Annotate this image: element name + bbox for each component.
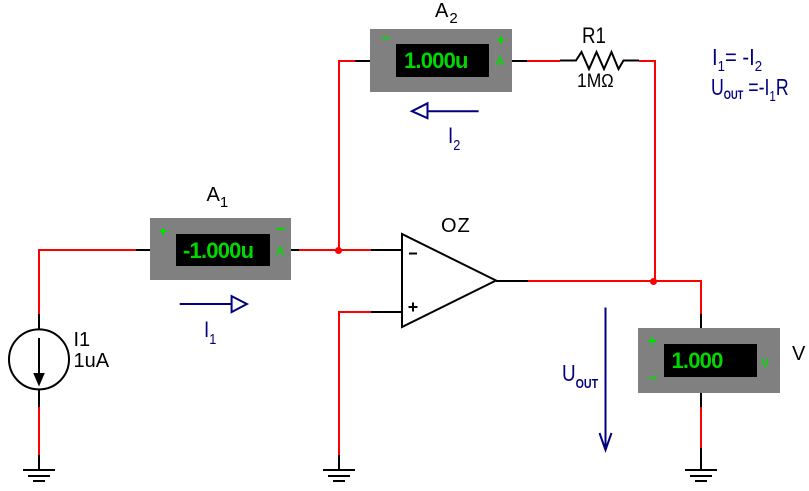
wire voltmeter top pin (700, 314, 702, 329)
label I1 arrow (204, 319, 216, 351)
wire (527, 60, 560, 62)
wire A1 right pin (291, 249, 299, 251)
label I2 arrow (448, 125, 460, 157)
wire ground lead (38, 455, 40, 469)
ammeter A1 (150, 218, 291, 280)
label 1M ohm (577, 72, 614, 91)
wire A2 right pin (511, 60, 527, 62)
label OZ (441, 216, 471, 236)
wire (700, 407, 702, 448)
wire voltmeter bottom pin (700, 393, 702, 407)
wire A2 left pin (355, 60, 371, 62)
formula I1 = -I2 (712, 46, 762, 78)
ground under voltmeter (685, 469, 717, 483)
wire (338, 311, 340, 456)
wire (654, 60, 656, 282)
wire op-amp non-inverting input pin (371, 311, 403, 313)
label 1uA (74, 351, 110, 371)
ground under op-amp + input (323, 469, 355, 483)
node junction A1/A2 (335, 247, 342, 254)
wire (700, 280, 702, 314)
ammeter A2 (370, 29, 512, 92)
label A2 (435, 1, 458, 29)
label R1 (582, 25, 606, 47)
voltage arrow Uout (595, 305, 617, 453)
wire (338, 60, 340, 251)
current arrow I2 (410, 101, 482, 121)
wire (338, 311, 371, 313)
voltmeter V (638, 328, 780, 393)
label A1 (207, 185, 229, 213)
label V (792, 344, 805, 364)
label I1 value (74, 330, 91, 350)
wire I1 top pin (38, 314, 40, 330)
op-amp OZ (400, 232, 500, 330)
wire A1 left pin (136, 249, 151, 251)
formula Uout = -I1 R (711, 76, 789, 108)
wire ground lead (338, 455, 340, 469)
wire op-amp inverting input pin (371, 249, 403, 251)
wire (338, 60, 356, 62)
node junction output (650, 278, 657, 285)
current source I1 (8, 328, 70, 390)
wire (528, 280, 702, 282)
wire I1 bottom pin (38, 390, 40, 407)
wire (38, 407, 40, 455)
ground under I1 (23, 469, 55, 483)
wire op-amp output pin (496, 280, 528, 282)
label Uout arrow (562, 362, 598, 395)
wire (639, 60, 656, 62)
wire ground lead (700, 448, 702, 469)
current arrow I1 (178, 294, 250, 314)
wire (38, 249, 136, 251)
wire (299, 249, 371, 251)
wire (38, 249, 40, 314)
resistor R1 (560, 50, 639, 71)
